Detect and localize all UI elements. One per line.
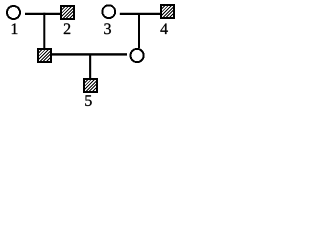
label 3 bbox=[104, 23, 111, 34]
individual 4: affected male hatched square bbox=[151, 3, 186, 18]
wire: marriage line I-3 to I-4 bbox=[120, 13, 160, 15]
label 1 bbox=[12, 23, 18, 34]
label 5 bbox=[85, 95, 91, 106]
individual 2: affected male hatched square bbox=[51, 4, 86, 19]
individual 3: unaffected female circle bbox=[102, 5, 115, 18]
wire: descent line to individual 5 bbox=[89, 54, 91, 78]
individual II-1: affected male hatched square (son of 1-2) bbox=[28, 47, 63, 62]
label 4 bbox=[160, 23, 167, 34]
individual 1: unaffected female circle bbox=[7, 6, 20, 19]
wire: descent line from couple 1-2 bbox=[43, 13, 45, 49]
label 2 bbox=[64, 23, 70, 34]
individual 5: affected male hatched square bbox=[74, 77, 109, 92]
wire: marriage line II generation bbox=[52, 53, 127, 55]
wire: marriage line I-1 to I-2 bbox=[25, 13, 60, 15]
wire: descent line from couple 3-4 bbox=[138, 13, 140, 48]
individual II-2: unaffected female circle (daughter of 3-4) bbox=[131, 49, 144, 62]
